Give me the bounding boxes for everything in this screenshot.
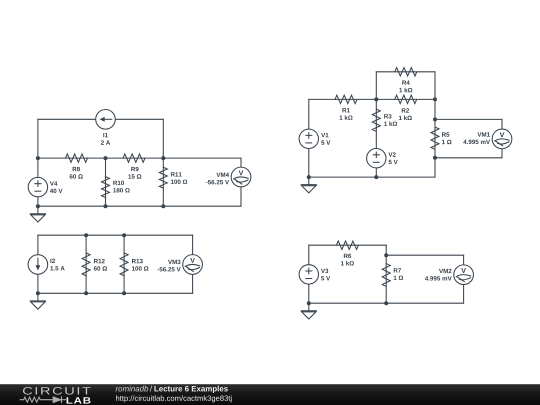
resistor R6 — [336, 241, 358, 249]
junction A6 — [161, 204, 165, 208]
label R12 60ohm — [94, 259, 107, 271]
logo wordmark CIRCUIT — [23, 387, 91, 395]
wire: D left rail — [308, 245, 310, 303]
current source I1 — [96, 110, 116, 130]
wire: B VM1 bottom wire — [435, 157, 502, 159]
label R7 1ohm — [394, 268, 404, 280]
wire: A middle rail — [38, 157, 241, 159]
junction D1 — [384, 253, 388, 257]
junction C3 — [36, 291, 40, 295]
junction A3 — [161, 156, 165, 160]
junction B4 — [433, 156, 437, 160]
wire: B R4 top rail — [376, 71, 435, 73]
wire: B VM1 top wire — [435, 118, 502, 120]
wire: A VM4 leads — [240, 158, 242, 206]
label I2 1.5A — [50, 259, 64, 271]
wire: A top-left vertical — [37, 119, 39, 158]
junction C5 — [122, 291, 126, 295]
wire: C R13 column — [123, 235, 125, 293]
wire: D VM2 bottom wire — [386, 302, 463, 304]
wire: B R4 right vertical — [434, 72, 436, 100]
wire: B VM1 leads — [501, 119, 503, 157]
resistor R9 — [123, 154, 145, 162]
voltage source V1 — [299, 129, 318, 148]
wire: A R11 column — [162, 158, 164, 206]
wire: B R3-V2 column — [375, 99, 377, 177]
resistor R7 — [382, 264, 390, 287]
wire: B bottom rail — [309, 176, 435, 178]
wire: D bottom rail — [309, 302, 386, 304]
label V2 5V — [388, 152, 397, 164]
junction D2 — [307, 301, 311, 305]
label R4 1k — [399, 81, 412, 93]
current source I2 — [28, 255, 48, 275]
wire: C VM3 column — [192, 235, 194, 293]
label VM3 reading — [158, 260, 181, 272]
label R13 100ohm — [132, 259, 148, 271]
label R3 1k — [384, 114, 397, 126]
logo text LAB — [67, 397, 91, 403]
junction A5 — [104, 204, 108, 208]
junction B1 — [374, 97, 378, 101]
voltage source V3 — [299, 265, 318, 284]
resistor R3 — [372, 109, 380, 131]
wire: C left rail — [37, 235, 39, 293]
voltmeter VM3 — [183, 255, 203, 275]
footer author and title — [116, 386, 149, 392]
label R8 60ohm — [70, 167, 83, 179]
wire: B main rail — [309, 98, 435, 100]
label I1 2A — [101, 133, 110, 145]
voltmeter VM2 — [454, 265, 474, 285]
label VM4 reading — [206, 173, 229, 185]
label V4 40V — [50, 181, 63, 193]
label R5 1ohm — [442, 132, 452, 144]
footer url — [116, 395, 232, 402]
ground B — [301, 177, 316, 193]
logo diode — [53, 397, 61, 403]
wire: C top rail — [38, 234, 193, 236]
wire: A R10 column — [105, 158, 107, 206]
wire: A top rail — [38, 118, 163, 120]
junction C4 — [84, 291, 88, 295]
junction C1 — [84, 233, 88, 237]
wire: A top-right vertical — [162, 119, 164, 158]
wire: B R4 left vertical — [375, 72, 377, 100]
junction A2 — [104, 156, 108, 160]
label R1 1k — [340, 108, 353, 120]
wire: C bottom rail — [38, 292, 193, 294]
junction B2 — [433, 97, 437, 101]
resistor R5 — [431, 127, 439, 149]
wire: A bottom rail — [38, 205, 241, 207]
junction C2 — [122, 233, 126, 237]
logo resistor squiggle — [20, 397, 53, 402]
junction B3 — [433, 117, 437, 121]
voltage source V4 — [28, 177, 47, 196]
ground D — [301, 303, 316, 319]
label R2 1k — [399, 108, 412, 120]
wire: D VM2 top wire — [386, 254, 463, 256]
label R6 1k — [341, 254, 354, 266]
voltmeter VM1 — [492, 129, 512, 149]
resistor R10 — [102, 177, 110, 198]
ground A — [30, 206, 45, 222]
resistor R2 — [395, 95, 417, 103]
label R10 180ohm — [113, 181, 129, 193]
resistor R1 — [335, 95, 357, 103]
wire: D R7 column — [385, 245, 387, 303]
junction D3 — [384, 301, 388, 305]
label VM2 reading — [425, 269, 452, 281]
resistor R4 — [395, 68, 417, 76]
wire: C R12 column — [85, 235, 87, 293]
label R11 100ohm — [171, 172, 187, 184]
ground C — [30, 293, 45, 309]
wire: B left rail — [308, 99, 310, 177]
label V1 5V — [321, 133, 330, 145]
wire: D top rail — [309, 244, 386, 246]
label V3 5V — [321, 269, 330, 281]
voltage source V2 — [367, 149, 386, 168]
wire: D VM2 leads — [463, 255, 465, 303]
resistor R11 — [159, 167, 167, 188]
wire: B right column — [434, 99, 436, 177]
resistor R13 — [120, 253, 128, 276]
resistor R12 — [82, 253, 90, 276]
resistor R8 — [66, 154, 88, 162]
junction B6 — [374, 175, 378, 179]
junction A1 — [36, 156, 40, 160]
wire: A left rail to V4 — [37, 158, 39, 206]
junction B5 — [307, 175, 311, 179]
junction A4 — [36, 204, 40, 208]
voltmeter VM4 — [231, 167, 251, 187]
label R9 15ohm — [128, 167, 141, 179]
label VM1 reading — [463, 132, 490, 144]
